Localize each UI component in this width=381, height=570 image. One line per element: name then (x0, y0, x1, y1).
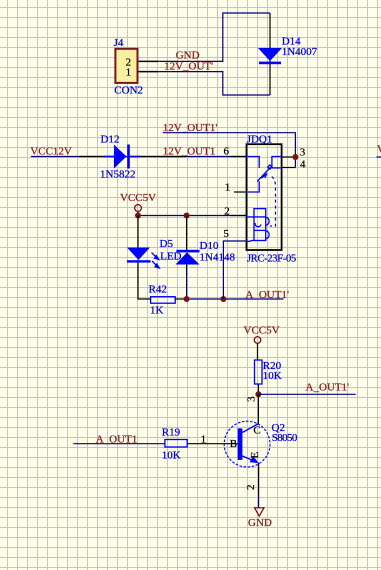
svg-text:A_OUT1': A_OUT1' (245, 289, 289, 301)
wire right edge stub (377, 156, 381, 158)
svg-text:JDQ1: JDQ1 (247, 134, 273, 146)
svg-text:VCC12V: VCC12V (30, 145, 72, 157)
junction at VCC5V / D5 (135, 213, 141, 219)
svg-text:CON2: CON2 (114, 85, 143, 97)
svg-text:3: 3 (300, 147, 306, 159)
pin 3 of JDQ1 (282, 156, 296, 158)
diode D12 (104, 145, 140, 169)
resistor R42 (151, 297, 176, 304)
svg-text:1: 1 (126, 67, 132, 79)
svg-text:VCC5V: VCC5V (244, 325, 280, 337)
wire junction to Q2 collector (257, 394, 259, 423)
transistor Q2 (224, 421, 270, 467)
junction at relay pin5 branch (220, 296, 226, 302)
svg-text:10K: 10K (263, 370, 282, 382)
svg-text:GND: GND (176, 50, 200, 62)
svg-text:5: 5 (223, 228, 229, 240)
diode D10 (176, 250, 200, 265)
wire 12V_OUT' net: J4 pin1 to D14 bottom (138, 72, 271, 95)
svg-text:E: E (249, 452, 261, 459)
relay actuator dashed link (270, 177, 276, 227)
wire VCC12V / 12V_OUT1 net (31, 156, 247, 158)
svg-text:D10: D10 (200, 240, 219, 252)
junction at collector / A_OUT1' (255, 391, 261, 397)
relay contact symbol inside JDQ1 (247, 157, 282, 193)
wire GND net: J4 pin2 to D14 top (138, 13, 271, 61)
wire D10 branch down (186, 216, 188, 250)
svg-text:1N4007: 1N4007 (282, 46, 318, 58)
svg-text:12V_OUT': 12V_OUT' (164, 61, 213, 73)
wire A_OUT1' net (lower) (258, 393, 355, 395)
wire relay pin 5 branch (223, 241, 246, 299)
diode D14 (258, 13, 282, 95)
svg-text:R19: R19 (162, 426, 181, 438)
wire 12V_OUT1' net to relay pins 3/4 (163, 133, 296, 168)
svg-text:12V_OUT1: 12V_OUT1 (163, 146, 216, 158)
wire Q2 emitter down (258, 463, 260, 493)
svg-text:V: V (377, 144, 381, 156)
wire VCC5V to R20 (257, 343, 259, 360)
svg-text:D12: D12 (101, 134, 120, 146)
wire R42 to junction (175, 298, 186, 300)
ground symbol (255, 508, 265, 516)
diode D5 LED (127, 248, 159, 269)
svg-text:GND: GND (248, 517, 272, 529)
junction at D10 top (184, 213, 190, 219)
relay coil inside JDQ1 (247, 209, 270, 242)
junction at R42/D10 (184, 296, 190, 302)
svg-text:A_OUT1': A_OUT1' (306, 382, 350, 394)
svg-text:JRC-23F-05: JRC-23F-05 (247, 254, 296, 265)
svg-text:3: 3 (245, 396, 257, 402)
resistor R20 (255, 360, 263, 384)
svg-text:S8050: S8050 (272, 432, 298, 444)
svg-text:J4: J4 (114, 37, 124, 49)
svg-text:C: C (253, 424, 260, 436)
wire D5 branch down (137, 216, 139, 248)
svg-text:6: 6 (224, 146, 230, 158)
svg-text:1: 1 (225, 181, 231, 193)
svg-text:4: 4 (300, 159, 306, 171)
wire A_OUT1' net (upper) (187, 298, 284, 300)
pin 4 of JDQ1 (282, 167, 296, 169)
resistor R19 (165, 440, 187, 448)
wire D5 to R42 corner (138, 263, 151, 299)
svg-text:1K: 1K (150, 304, 164, 316)
svg-text:VCC5V: VCC5V (120, 192, 156, 204)
wire R20 to junction (257, 384, 259, 394)
relay JDQ1 box (247, 144, 282, 250)
connector J4 (115, 49, 137, 83)
svg-text:D5: D5 (160, 238, 174, 250)
wire A_OUT1 net (73, 443, 164, 445)
svg-text:2: 2 (245, 485, 257, 491)
svg-text:R42: R42 (149, 283, 167, 295)
svg-text:1N5822: 1N5822 (100, 169, 135, 181)
svg-text:1N4148: 1N4148 (200, 252, 236, 264)
wire VCC5V drop (137, 211, 139, 215)
wire D10 bottom to A_OUT1' (186, 265, 188, 300)
wire R19 to Q2 base (187, 443, 238, 445)
svg-text:10K: 10K (162, 450, 181, 462)
pin 1 of JDQ1 (234, 191, 247, 193)
junction at relay pins 3/4 (292, 154, 298, 160)
wire VCC5V net to relay pin 2 (138, 215, 247, 217)
svg-text:A_OUT1: A_OUT1 (96, 434, 138, 446)
wire emitter to GND (258, 493, 260, 508)
wire relay pin 2 stub (231, 215, 247, 217)
